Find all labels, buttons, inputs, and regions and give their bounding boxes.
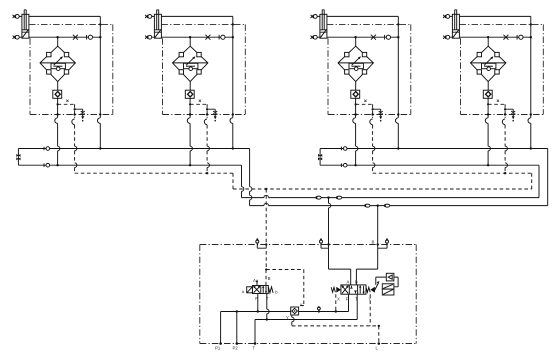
pressure indicator arrow [318,310,320,312]
main valve T riser [356,294,358,319]
pilot valve T down with hop [266,294,268,320]
right group second bus [320,164,539,166]
coupling on left second bus [43,163,45,167]
right staircase: second bus down to mid line [538,165,540,197]
proportional arrow [374,283,379,292]
pilot check X [291,307,299,315]
long pilot dashed line [233,188,532,190]
left group top bus [18,148,249,150]
pilot valve spring b [268,287,273,293]
pilot bus junction unit2 [206,172,208,174]
svg-text:Y: Y [286,315,289,320]
couplings on middle line [316,196,321,199]
port T riser [254,320,256,344]
pilot valve parallel arrows [263,286,266,293]
svg-text:X: X [300,303,303,308]
lifting unit 3 [311,10,411,173]
main valve body [341,285,366,294]
lifting unit 1 [13,10,113,173]
main valve center blocked cell [350,286,357,294]
main valve P riser [348,294,350,311]
proportional solenoid boxes [382,284,394,289]
right staircase: top bus down to bottom line [547,149,549,206]
bottom solid line [250,205,548,207]
svg-text:B: B [268,276,271,281]
svg-text:A: A [253,278,256,283]
test point coupling left [257,243,266,248]
port P2 riser [236,312,238,344]
test point coupling center [321,243,329,248]
drain line dashed [291,315,293,317]
svg-text:a: a [242,289,245,294]
svg-text:B: B [355,280,358,285]
svg-text:A: A [347,280,350,285]
valve block enclosure dash-dot [200,245,416,344]
pilot drop elbow to X check [266,270,304,306]
pilot valve port B stub [265,270,267,286]
tank line T [255,319,357,321]
left group pilot dashed bus [75,172,233,174]
main valve solenoid left [331,287,335,292]
pilot relief box [386,273,394,281]
main valve Y drain dashed [369,294,371,326]
port P1 riser [220,312,222,344]
middle solid line [242,197,540,199]
couplings on bottom line [365,204,370,207]
svg-text:P2: P2 [233,346,239,351]
junction of X pilot on P line [335,310,337,312]
pilot valve crossed arrows [254,286,260,292]
coupling on left top bus [43,147,45,151]
main valve crossed arrows cell [342,286,348,294]
port A drop from middle line [329,198,351,285]
left staircase: dashed bus down [232,173,234,189]
coupling on right second bus [340,163,342,167]
lifting unit 4 [443,10,543,173]
main valve right spring [366,287,370,292]
main valve X pilot dashed [335,294,337,311]
left group end connector [17,149,19,166]
svg-text:T: T [252,346,255,351]
coupling on right top bus [340,147,342,151]
svg-text:X: X [337,297,340,302]
left group second bus [18,164,241,166]
solenoid pilot valve body [252,286,268,294]
right group pilot dashed bus [373,172,532,174]
right staircase: dashed bus down [531,173,533,189]
right group end connector [319,149,321,166]
pilot drop elbow corner dot [265,268,267,270]
svg-text:P1: P1 [215,346,221,351]
pilot bus junction unit4 [504,172,506,174]
svg-text:B: B [372,240,375,245]
pilot valve port A stub [256,281,258,286]
main valve parallel arrows cell [360,286,363,294]
pilot valve solenoid a [247,287,253,293]
pilot valve P down [257,294,259,312]
left group end double cross [16,154,20,161]
svg-text:b: b [275,290,278,295]
pressure line P [221,311,349,313]
port B drop from bottom line [356,206,377,285]
right group top bus [320,148,548,150]
test point coupling right [378,243,387,248]
left staircase: second bus down to mid line [241,165,243,197]
port L dashed riser [378,326,380,344]
svg-text:L: L [376,346,379,351]
right group end double cross [318,154,322,161]
pilot drop to valve block dashed [265,189,267,270]
lifting unit 2 [145,10,245,173]
pilot relief connection [376,277,387,285]
left staircase: top bus down to bottom line [249,149,251,206]
